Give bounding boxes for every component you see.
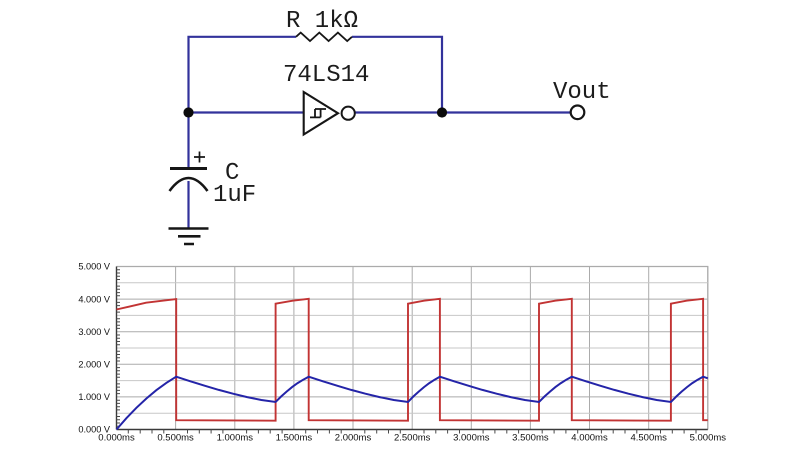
y axis line xyxy=(116,267,118,430)
x axis line xyxy=(117,429,708,431)
svg-text:74LS14: 74LS14 xyxy=(283,62,369,89)
svg-text:3.000ms: 3.000ms xyxy=(453,433,490,444)
wire input net (cap node to inverter input) xyxy=(189,111,304,113)
svg-text:3.000 V: 3.000 V xyxy=(78,327,111,337)
svg-text:2.500ms: 2.500ms xyxy=(394,433,431,444)
svg-text:Vout: Vout xyxy=(553,79,611,106)
svg-text:1.000 V: 1.000 V xyxy=(78,392,111,402)
svg-text:4.500ms: 4.500ms xyxy=(630,433,667,444)
svg-text:R 1kΩ: R 1kΩ xyxy=(286,8,358,35)
svg-text:1.500ms: 1.500ms xyxy=(276,433,313,444)
capacitor C1 curved plate xyxy=(170,178,208,191)
Vout open terminal xyxy=(571,106,585,120)
op-amp U1 Schmitt inverter triangle xyxy=(304,92,338,135)
capacitor C1 plus polarity mark xyxy=(194,152,205,163)
svg-text:0.000ms: 0.000ms xyxy=(98,433,135,444)
grid xyxy=(176,267,708,430)
ground symbol xyxy=(169,229,209,245)
node B junction dot (output) xyxy=(437,107,447,117)
svg-text:4.000ms: 4.000ms xyxy=(571,433,608,444)
wire output net (bubble to Vout terminal) xyxy=(355,111,571,113)
svg-text:5.000ms: 5.000ms xyxy=(690,433,727,444)
wire capacitor branch xyxy=(187,113,189,229)
node A junction dot (input) xyxy=(183,107,193,117)
svg-text:4.000 V: 4.000 V xyxy=(78,294,111,304)
svg-text:2.000ms: 2.000ms xyxy=(335,433,372,444)
svg-text:2.000 V: 2.000 V xyxy=(78,360,111,370)
svg-text:0.500ms: 0.500ms xyxy=(157,433,194,444)
svg-text:1uF: 1uF xyxy=(213,182,256,209)
wire top feedback (R top rail) xyxy=(189,37,443,113)
svg-text:3.500ms: 3.500ms xyxy=(512,433,549,444)
hysteresis glyph inside U1 xyxy=(310,109,326,117)
svg-text:5.000 V: 5.000 V xyxy=(78,262,111,272)
x axis minor ticks xyxy=(128,430,696,434)
plot frame top and right edge xyxy=(117,267,708,430)
trace Vcap blue waveform xyxy=(117,377,708,430)
capacitor C1 top plate xyxy=(170,167,207,170)
inverter output bubble xyxy=(342,107,355,120)
svg-text:1.000ms: 1.000ms xyxy=(217,433,254,444)
resistor R1 zigzag xyxy=(296,33,352,41)
y axis minor ticks xyxy=(117,270,121,426)
trace Vout red square wave xyxy=(117,299,708,421)
